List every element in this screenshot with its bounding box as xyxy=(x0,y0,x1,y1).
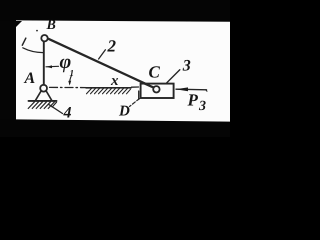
svg-text:3: 3 xyxy=(182,58,191,75)
leader for label 2 xyxy=(99,50,106,59)
force P3 line xyxy=(176,88,207,91)
leader for label 3 xyxy=(167,70,180,83)
rod end inside slider xyxy=(141,82,153,87)
black scan frame xyxy=(0,0,230,137)
white paper panel xyxy=(16,20,230,123)
pin joint C xyxy=(153,86,159,92)
label 1 xyxy=(22,38,26,45)
pin joint B xyxy=(41,35,47,41)
support hatching xyxy=(28,102,56,109)
crank link 1 (bar AB) xyxy=(43,41,45,85)
leader for label D xyxy=(130,99,140,107)
svg-text:A: A xyxy=(24,70,36,87)
phi angle arrow (left) xyxy=(46,65,59,68)
top frame band (slight scan skew) xyxy=(0,0,230,22)
pin joint A xyxy=(40,85,47,92)
dash-dot centerline from A xyxy=(50,86,88,88)
slider guide surface line xyxy=(86,87,131,89)
svg-text:D: D xyxy=(118,104,130,120)
support baseline xyxy=(29,100,57,102)
bottom frame band (slight scan skew) xyxy=(0,119,230,137)
top-left corner shadow xyxy=(16,21,22,27)
slider block 3 xyxy=(141,84,174,98)
svg-text:x: x xyxy=(110,73,119,89)
leader for label 4 xyxy=(49,104,63,113)
stray scan dot near B xyxy=(36,30,38,32)
connecting rod 2 (link B-C) xyxy=(48,38,154,87)
phi angle arrow (down) xyxy=(70,76,72,84)
svg-text:B: B xyxy=(46,18,56,33)
guide end tick xyxy=(138,91,140,100)
svg-text:2: 2 xyxy=(107,37,117,56)
leader from label 1 to bar xyxy=(23,48,43,53)
centerline dash before slider xyxy=(132,86,139,88)
svg-text:C: C xyxy=(149,62,161,81)
guide hatching xyxy=(87,88,131,93)
force P3 arrowhead xyxy=(176,87,188,91)
svg-text:3: 3 xyxy=(198,99,206,114)
svg-text:4: 4 xyxy=(63,105,72,122)
support triangle legs xyxy=(35,91,41,101)
svg-text:1: 1 xyxy=(70,68,75,78)
svg-text:P: P xyxy=(187,91,199,110)
